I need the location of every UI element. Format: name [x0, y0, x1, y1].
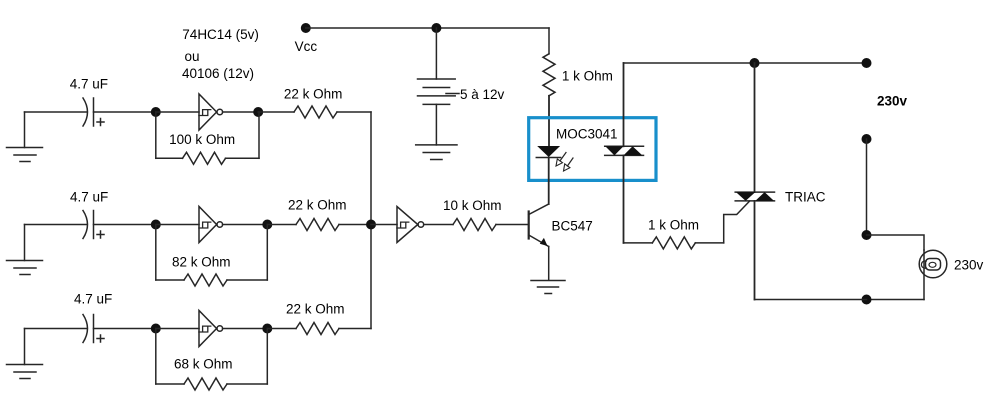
wire row1 ground to capacitor	[25, 111, 88, 113]
resistor 1 k Ohm collector	[543, 28, 555, 146]
triac T1	[735, 192, 774, 201]
svg-text:4.7 uF: 4.7 uF	[74, 292, 112, 307]
svg-text:1 k Ohm: 1 k Ohm	[648, 217, 699, 232]
capacitor C1 4.7 uF	[83, 98, 104, 126]
svg-text:ou: ou	[185, 49, 200, 64]
resistor 1 k Ohm gate	[652, 237, 695, 249]
resistor 68 k Ohm feedback row3	[156, 329, 267, 391]
ground G5 (battery)	[416, 145, 457, 160]
node AC terminal top	[862, 58, 872, 68]
wire lamp branch bottom	[867, 299, 925, 301]
ground G3 (row 3)	[7, 329, 43, 379]
svg-text:68 k Ohm: 68 k Ohm	[174, 357, 233, 372]
lamp L1 230v	[919, 250, 947, 300]
node B1	[253, 107, 263, 117]
node battery tap	[431, 23, 441, 33]
node B3	[262, 324, 272, 334]
wire Vcc rail	[306, 27, 549, 29]
wire capacitor C3 to node A3	[94, 328, 156, 330]
battery B1 5 a 12v	[418, 28, 460, 145]
node bus junction	[366, 220, 376, 230]
svg-text:22 k Ohm: 22 k Ohm	[288, 198, 347, 213]
wire row3 ground to capacitor	[25, 328, 88, 330]
svg-text:MOC3041: MOC3041	[556, 127, 618, 142]
wire triac MT1 vertical	[754, 201, 756, 300]
svg-text:100 k Ohm: 100 k Ohm	[169, 132, 235, 147]
inverter U1B (schmitt)	[199, 207, 223, 243]
svg-text:10 k Ohm: 10 k Ohm	[443, 198, 502, 213]
wire bus to inverter U1D	[371, 224, 397, 226]
wire AC terminal to lamp branch	[866, 139, 868, 235]
ground G2 (row 2)	[7, 225, 43, 275]
svg-text:74HC14 (5v): 74HC14 (5v)	[182, 27, 259, 42]
svg-text:BC547: BC547	[552, 219, 593, 234]
wire gate resistor to phototriac	[624, 242, 653, 244]
svg-text:1 k Ohm: 1 k Ohm	[562, 68, 613, 83]
svg-text:230v: 230v	[877, 94, 908, 109]
wire resistor 10k to transistor base	[496, 224, 528, 226]
capacitor C3 4.7 uF	[83, 315, 104, 343]
optocoupler U2 MOC3041 box	[529, 118, 656, 181]
wire bottom rail	[755, 299, 867, 301]
wire top AC rail	[624, 62, 867, 64]
svg-text:22 k Ohm: 22 k Ohm	[286, 301, 345, 316]
wire transistor emitter to ground	[548, 247, 550, 281]
svg-text:22 k Ohm: 22 k Ohm	[284, 86, 343, 101]
node A2	[151, 220, 161, 230]
wire inverter U1B output to node B2	[223, 224, 268, 226]
node bottom rail junction	[862, 295, 872, 305]
node Vcc terminal	[301, 23, 311, 33]
svg-text:TRIAC: TRIAC	[785, 189, 826, 204]
svg-text:Vcc: Vcc	[295, 39, 318, 54]
svg-text:230v: 230v	[954, 258, 984, 273]
wire inverter U1A output to node B1	[223, 111, 259, 113]
wire row2 ground to capacitor	[25, 224, 88, 226]
node A1	[151, 107, 161, 117]
wire node A1 to inverter U1A	[156, 111, 199, 113]
wire lamp branch top	[867, 235, 925, 250]
svg-text:4.7 uF: 4.7 uF	[70, 190, 108, 205]
resistor 100 k Ohm feedback row1	[156, 112, 259, 164]
resistor R3 22 k Ohm row3	[267, 323, 371, 335]
node lamp branch top	[862, 230, 872, 240]
capacitor C2 4.7 uF	[83, 211, 104, 239]
node triac MT2 junction	[750, 58, 760, 68]
wire LED cathode to collector	[548, 158, 550, 205]
wire triac MT2 vertical	[754, 63, 756, 192]
node AC terminal bottom	[862, 134, 872, 144]
node A3	[151, 324, 161, 334]
wire capacitor C2 to node A2	[94, 224, 156, 226]
svg-text:5 à 12v: 5 à 12v	[460, 87, 505, 102]
resistor 82 k Ohm feedback row2	[156, 225, 267, 287]
LED D1 (inside optocoupler)	[536, 146, 573, 171]
wire capacitor C1 to node A1	[94, 111, 156, 113]
resistor R1 22 k Ohm row1	[258, 106, 371, 118]
wire summing bus vertical	[370, 112, 372, 329]
resistor R2 22 k Ohm row2	[267, 219, 371, 231]
wire node A3 to inverter U1C	[156, 328, 199, 330]
inverter U1C (schmitt)	[199, 311, 223, 347]
svg-text:82 k Ohm: 82 k Ohm	[172, 255, 231, 270]
svg-text:4.7 uF: 4.7 uF	[70, 76, 108, 91]
inverter U1D (schmitt)	[397, 207, 424, 243]
ground G1 (row 1)	[7, 112, 43, 162]
transistor Q1 BC547	[529, 204, 549, 247]
resistor 10 k Ohm	[453, 219, 496, 231]
ground G4 (emitter)	[531, 281, 565, 294]
svg-text:40106 (12v): 40106 (12v)	[182, 66, 254, 81]
node B2	[262, 220, 272, 230]
wire inverter U1D output to resistor 10k	[424, 224, 453, 226]
phototriac U2 output (inside optocoupler)	[605, 63, 644, 243]
wire inverter U1C output to node B3	[223, 328, 268, 330]
wire triac gate	[695, 201, 750, 243]
inverter U1A (schmitt)	[199, 94, 223, 130]
wire node A2 to inverter U1B	[156, 224, 199, 226]
